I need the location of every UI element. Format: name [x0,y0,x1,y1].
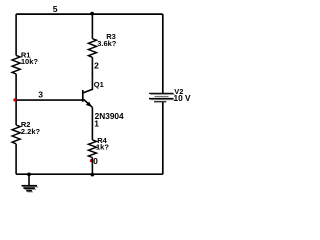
battery V2 plate2 short gray [155,96,169,98]
ground bar1 shadow [23,186,39,188]
wire left branch middle [15,74,17,125]
battery V2 plate3 long [149,98,174,100]
resistor R1 [12,55,20,74]
svg-text:1k?: 1k? [96,143,109,152]
wire collector branch upper [91,14,93,39]
wire right branch lower [162,102,164,174]
wire left branch upper [15,14,17,55]
svg-text:0: 0 [93,156,98,166]
pin dot Q1 collector [92,77,94,79]
junction node 5 dot [90,12,94,16]
wire top rail net 5 [16,13,163,15]
wire net 2 collector [84,57,93,92]
ground bar3 [26,190,32,192]
ground stem [28,174,30,186]
wire left branch lower [15,144,17,174]
node 0 red dot [90,159,93,162]
resistor R4 [88,140,96,158]
wire emitter net 1 [91,107,93,139]
battery V2 plate1 long [149,92,174,94]
svg-text:Q1: Q1 [94,80,104,89]
svg-text:2.2k?: 2.2k? [21,127,41,136]
battery V2 plate3 shadow [150,99,174,101]
junction ground dot [27,173,31,177]
svg-text:3: 3 [38,90,43,100]
ground bar2 [24,187,35,189]
ground bar3 shadow [27,191,33,193]
svg-text:1: 1 [94,118,99,128]
svg-text:5: 5 [53,4,58,14]
wire right branch upper [162,14,164,93]
junction bottom middle dot [91,173,95,177]
transistor Q1 base bar [82,90,84,102]
wire bottom rail net 0 [16,173,163,175]
pin dot R3 bottom [92,60,94,62]
resistor R2 [12,125,20,144]
battery V2 plate4 short [154,101,166,103]
wire below R4 [91,158,93,175]
resistor R3 [88,39,96,58]
svg-text:2N3904: 2N3904 [95,111,124,121]
junction node 3 red dot [13,98,16,101]
ground bar1 [22,185,38,187]
transistor Q1 emitter [84,99,93,107]
svg-text:3.6k?: 3.6k? [97,39,117,48]
svg-text:10 V: 10 V [174,93,192,103]
ground bar2 shadow [25,188,36,190]
battery V2 plate1 shadow [150,94,174,96]
svg-text:10k?: 10k? [21,57,39,66]
svg-text:2: 2 [94,61,99,71]
transistor Q1 emitter arrowhead [87,102,91,106]
wire base net 3 [16,99,82,101]
